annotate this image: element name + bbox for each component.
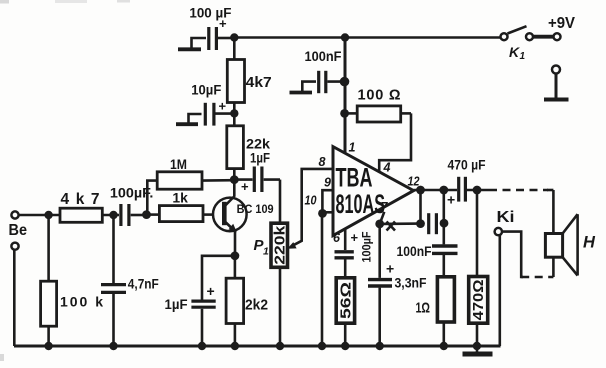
svg-text:2k2: 2k2 — [245, 297, 268, 314]
wire C4 to P1 top — [279, 180, 282, 224]
resistor 1M — [157, 172, 202, 189]
wire speaker bottom — [552, 257, 555, 277]
wire 100k to rail — [47, 326, 50, 346]
transistor Q1 BC109 — [213, 180, 247, 256]
svg-text:1: 1 — [349, 141, 356, 155]
wire output to 470ohm — [476, 190, 479, 277]
svg-text:56Ω: 56Ω — [338, 282, 354, 319]
wire Be to R1 — [19, 214, 60, 217]
pin 7 wire — [380, 212, 385, 224]
svg-text:470Ω: 470Ω — [471, 279, 487, 320]
svg-text:+: + — [351, 230, 359, 245]
node junction R1/C3/4.7nF — [109, 211, 117, 219]
op-amp U1 TBA810AS — [333, 147, 414, 236]
svg-text:4k7: 4k7 — [61, 191, 100, 208]
wire 1k to base — [203, 213, 213, 216]
node junction rail dots — [44, 342, 481, 350]
resistor 100ohm — [345, 106, 411, 122]
capacitor C11 470uF — [447, 177, 465, 208]
wire to C10 100nF — [442, 223, 445, 244]
wire output down right — [442, 190, 445, 223]
wire pin7 to C8 — [380, 222, 421, 225]
svg-text:100nF: 100nF — [397, 243, 432, 259]
wire speaker feed down — [552, 190, 555, 234]
node junction pin7 — [375, 220, 384, 229]
svg-text:+: + — [447, 192, 455, 208]
wire Be lower to rail — [13, 250, 16, 346]
svg-text:1: 1 — [263, 246, 269, 258]
wire emitter to C5 — [202, 256, 235, 300]
capacitor C1 100uF top — [209, 16, 234, 50]
svg-text:+: + — [219, 99, 227, 114]
svg-text:470 µF: 470 µF — [448, 157, 486, 173]
svg-text:12: 12 — [408, 175, 420, 189]
resistor 2k2 — [226, 256, 244, 346]
svg-text:100 µF: 100 µF — [189, 5, 231, 21]
svg-text:H: H — [583, 234, 596, 252]
resistor 56ohm — [336, 278, 354, 346]
svg-text:810AS: 810AS — [336, 189, 386, 219]
label P1 — [254, 237, 270, 258]
capacitor C10 100nF — [432, 246, 458, 277]
ground symbol bottom — [463, 346, 493, 354]
chassis ground at C1 — [178, 38, 206, 49]
chassis ground at C6 — [290, 82, 317, 93]
capacitor C6 100nF — [319, 71, 345, 93]
node junction 100ohm/pin1 — [340, 109, 349, 118]
svg-text:8: 8 — [319, 155, 326, 169]
node junction C8 right — [440, 219, 449, 228]
resistor 100k — [41, 281, 57, 326]
switch K1 — [501, 26, 561, 62]
capacitor C8 — [429, 213, 437, 234]
capacitor C5 1uF — [191, 283, 215, 346]
node junction output b — [439, 186, 448, 195]
wire pin 6 to C7 — [344, 229, 347, 250]
node junction C3/1M/1k — [142, 210, 151, 219]
svg-text:220k: 220k — [272, 225, 288, 265]
wire pin7 to C9 3.3nF — [378, 224, 381, 278]
wire ground rail — [14, 345, 501, 348]
wire 1M to collector node — [202, 179, 234, 182]
svg-text:+: + — [241, 179, 249, 194]
node junction emitter — [231, 251, 240, 260]
svg-text:7: 7 — [381, 200, 389, 214]
svg-text:1k: 1k — [172, 190, 188, 206]
node junction pins 9/10 — [318, 209, 327, 218]
wire Ki to speaker return — [502, 232, 523, 277]
svg-text:+: + — [386, 261, 394, 277]
wire +9V rail — [234, 36, 501, 39]
capacitor C7 100uF — [335, 230, 359, 258]
resistor R1 4k7 input — [60, 208, 102, 222]
node junction output a — [416, 186, 425, 195]
svg-text:10: 10 — [305, 194, 317, 208]
wire C11 to speaker node — [467, 189, 489, 192]
svg-text:10µF: 10µF — [191, 82, 221, 98]
pin 9 wire — [322, 190, 333, 213]
svg-text:4k7: 4k7 — [246, 74, 272, 91]
svg-text:1M: 1M — [170, 156, 187, 172]
svg-text:6: 6 — [333, 231, 341, 245]
node junction C6/pin1 — [340, 77, 350, 87]
svg-text:4,7nF: 4,7nF — [128, 276, 159, 292]
resistor 1ohm — [437, 277, 454, 346]
node junction input — [44, 211, 52, 219]
wire output down left — [419, 190, 422, 224]
node junction output c — [473, 186, 482, 195]
svg-text:9: 9 — [324, 176, 331, 190]
svg-text:BC 109: BC 109 — [237, 204, 274, 216]
terminal Be input — [11, 211, 18, 249]
scan smudge top-left — [0, 0, 9, 4]
pin 8 wire to P1 wiper — [287, 169, 333, 249]
svg-text:K: K — [509, 44, 520, 60]
wire R1 to C3 — [102, 214, 119, 217]
node junction rail/pin1 — [341, 33, 349, 41]
scan smudge bottom-left — [0, 354, 4, 361]
wire 100ohm to pin4 — [379, 113, 411, 172]
resistor 470ohm — [469, 277, 488, 347]
wire Ki to rail end — [498, 235, 501, 346]
wire dashed output to speaker — [489, 189, 548, 192]
svg-text:3,3nF: 3,3nF — [395, 275, 427, 291]
svg-text:100 Ω: 100 Ω — [358, 88, 401, 104]
wire input to 100k — [47, 215, 50, 281]
capacitor C9 3.3nF — [368, 261, 394, 347]
resistor 1k — [159, 206, 203, 222]
pin 10 wire — [322, 211, 333, 214]
wire node up to 1M — [147, 181, 158, 215]
svg-text:1µF: 1µF — [250, 150, 270, 166]
node junction C8 left — [416, 219, 425, 228]
svg-text:100 k: 100 k — [60, 294, 103, 310]
wire pin1 from rail — [344, 38, 347, 154]
svg-text:Be: Be — [9, 222, 28, 239]
svg-text:+: + — [207, 283, 215, 299]
svg-text:100nF: 100nF — [305, 48, 342, 64]
x mark on wire — [387, 222, 396, 231]
chassis ground at C2 — [176, 114, 202, 124]
wire dashed speaker return — [521, 276, 553, 279]
wire P1 bottom to rail — [279, 267, 282, 346]
svg-text:1Ω: 1Ω — [416, 300, 431, 317]
capacitor C3 100uF input — [121, 204, 147, 226]
node junction top-left — [230, 33, 238, 41]
svg-text:100µF: 100µF — [360, 232, 374, 263]
terminal Ki — [495, 228, 502, 235]
pin 12 output wire — [414, 189, 457, 192]
resistor 4k7 vertical — [227, 60, 244, 103]
loudspeaker H — [545, 214, 577, 275]
svg-text:Ki: Ki — [497, 209, 515, 226]
svg-text:4: 4 — [383, 161, 391, 175]
wire rail to R 4k7 — [233, 38, 236, 60]
terminal post with ground — [544, 66, 569, 100]
capacitor C2 10uF — [205, 99, 234, 126]
svg-text:TBA: TBA — [336, 163, 373, 193]
wire node to 4.7nF — [112, 215, 115, 284]
svg-text:+9V: +9V — [548, 15, 576, 32]
capacitor 4.7nF — [101, 285, 126, 346]
node junction 4k7/10uF/22k — [230, 109, 238, 117]
resistor 22k — [227, 113, 244, 179]
svg-text:1: 1 — [520, 51, 526, 62]
wire C7 to 56ohm — [344, 259, 347, 277]
node junction 22k/1M/C4/collector — [230, 175, 239, 184]
svg-text:1µF: 1µF — [165, 296, 188, 312]
wire 4k7 to node — [233, 103, 236, 114]
wire node to 1k — [147, 213, 160, 216]
wire pins 9/10 to rail — [321, 213, 324, 346]
capacitor C4 1uF — [234, 167, 280, 195]
potentiometer P1 220k — [271, 223, 288, 267]
